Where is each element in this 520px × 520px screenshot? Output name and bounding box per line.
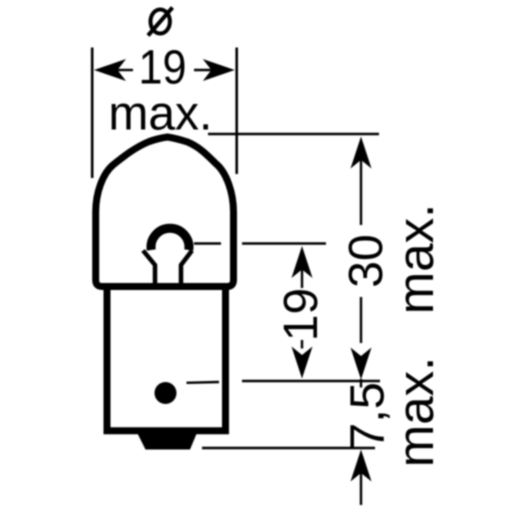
- diameter symbol: [148, 8, 173, 36]
- label 7,5 (rotated): [342, 382, 395, 450]
- extension line apex level (30 top): [208, 133, 379, 135]
- dimension 19 vertical: upper arrow: [292, 246, 313, 288]
- bayonet pin (dot): [155, 382, 177, 404]
- label max. for 30 (rotated): [387, 204, 444, 315]
- dimension 30: upper arrow: [351, 137, 372, 226]
- filament lead wires: [143, 251, 192, 288]
- label 19 (top): [139, 41, 187, 94]
- dimension 19 vertical: lower arrow: [292, 340, 313, 379]
- arrow right (d19): [194, 59, 235, 81]
- label 30 (rotated): [340, 234, 393, 287]
- dimension 7,5: lower arrow: [351, 450, 372, 506]
- svg-text:19: 19: [139, 41, 187, 94]
- svg-text:30: 30: [340, 234, 393, 287]
- reference plane line: [242, 380, 380, 382]
- extension line right (d19): [235, 48, 238, 175]
- arrow left (d19): [94, 59, 133, 81]
- leader from pin: [187, 381, 220, 384]
- base bottom contact: [137, 432, 198, 450]
- dimension 30: lower arrow: [351, 297, 372, 388]
- svg-text:max.: max.: [108, 88, 212, 141]
- svg-text:19: 19: [275, 288, 328, 341]
- bulb glass envelope: [96, 137, 234, 287]
- svg-text:max.: max.: [387, 204, 444, 315]
- extension line left (d19): [91, 48, 94, 179]
- bulb metal base: [107, 286, 226, 431]
- extension line contact level (7,5 bottom): [202, 447, 375, 449]
- leader from filament: [194, 242, 221, 244]
- extension line filament level (19 top): [242, 242, 326, 244]
- svg-text:max.: max.: [387, 357, 444, 468]
- label max. for 7,5 (rotated): [387, 357, 444, 468]
- filament arc: [151, 228, 189, 250]
- label 19 (rotated): [275, 288, 328, 341]
- label max. (top): [108, 88, 212, 141]
